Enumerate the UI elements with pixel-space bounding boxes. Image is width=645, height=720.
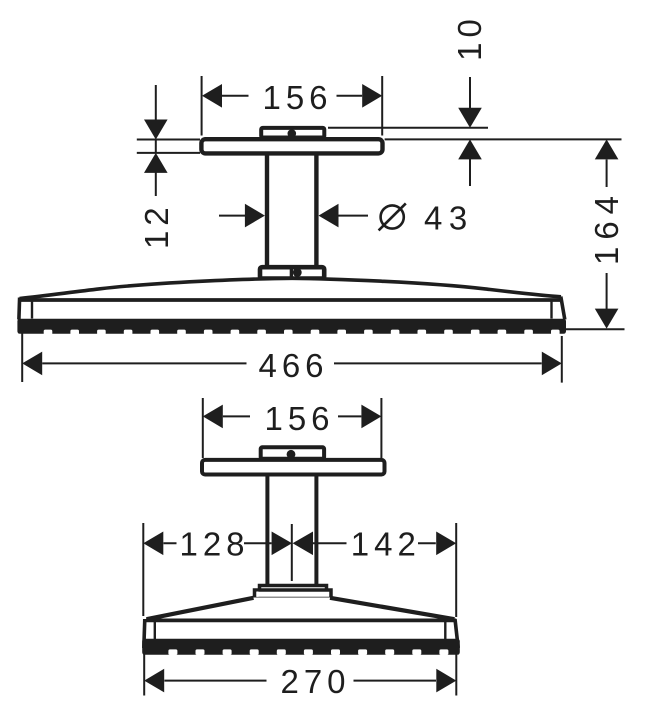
svg-text:142: 142: [351, 526, 421, 563]
svg-text:128: 128: [179, 526, 249, 563]
svg-text:270: 270: [280, 663, 350, 700]
svg-text:466: 466: [258, 347, 328, 384]
svg-text:156: 156: [262, 79, 332, 116]
svg-text:156: 156: [264, 400, 334, 437]
svg-text:12: 12: [138, 202, 175, 249]
svg-text:10: 10: [451, 14, 488, 61]
svg-text:43: 43: [424, 200, 474, 237]
svg-text:164: 164: [588, 189, 625, 265]
